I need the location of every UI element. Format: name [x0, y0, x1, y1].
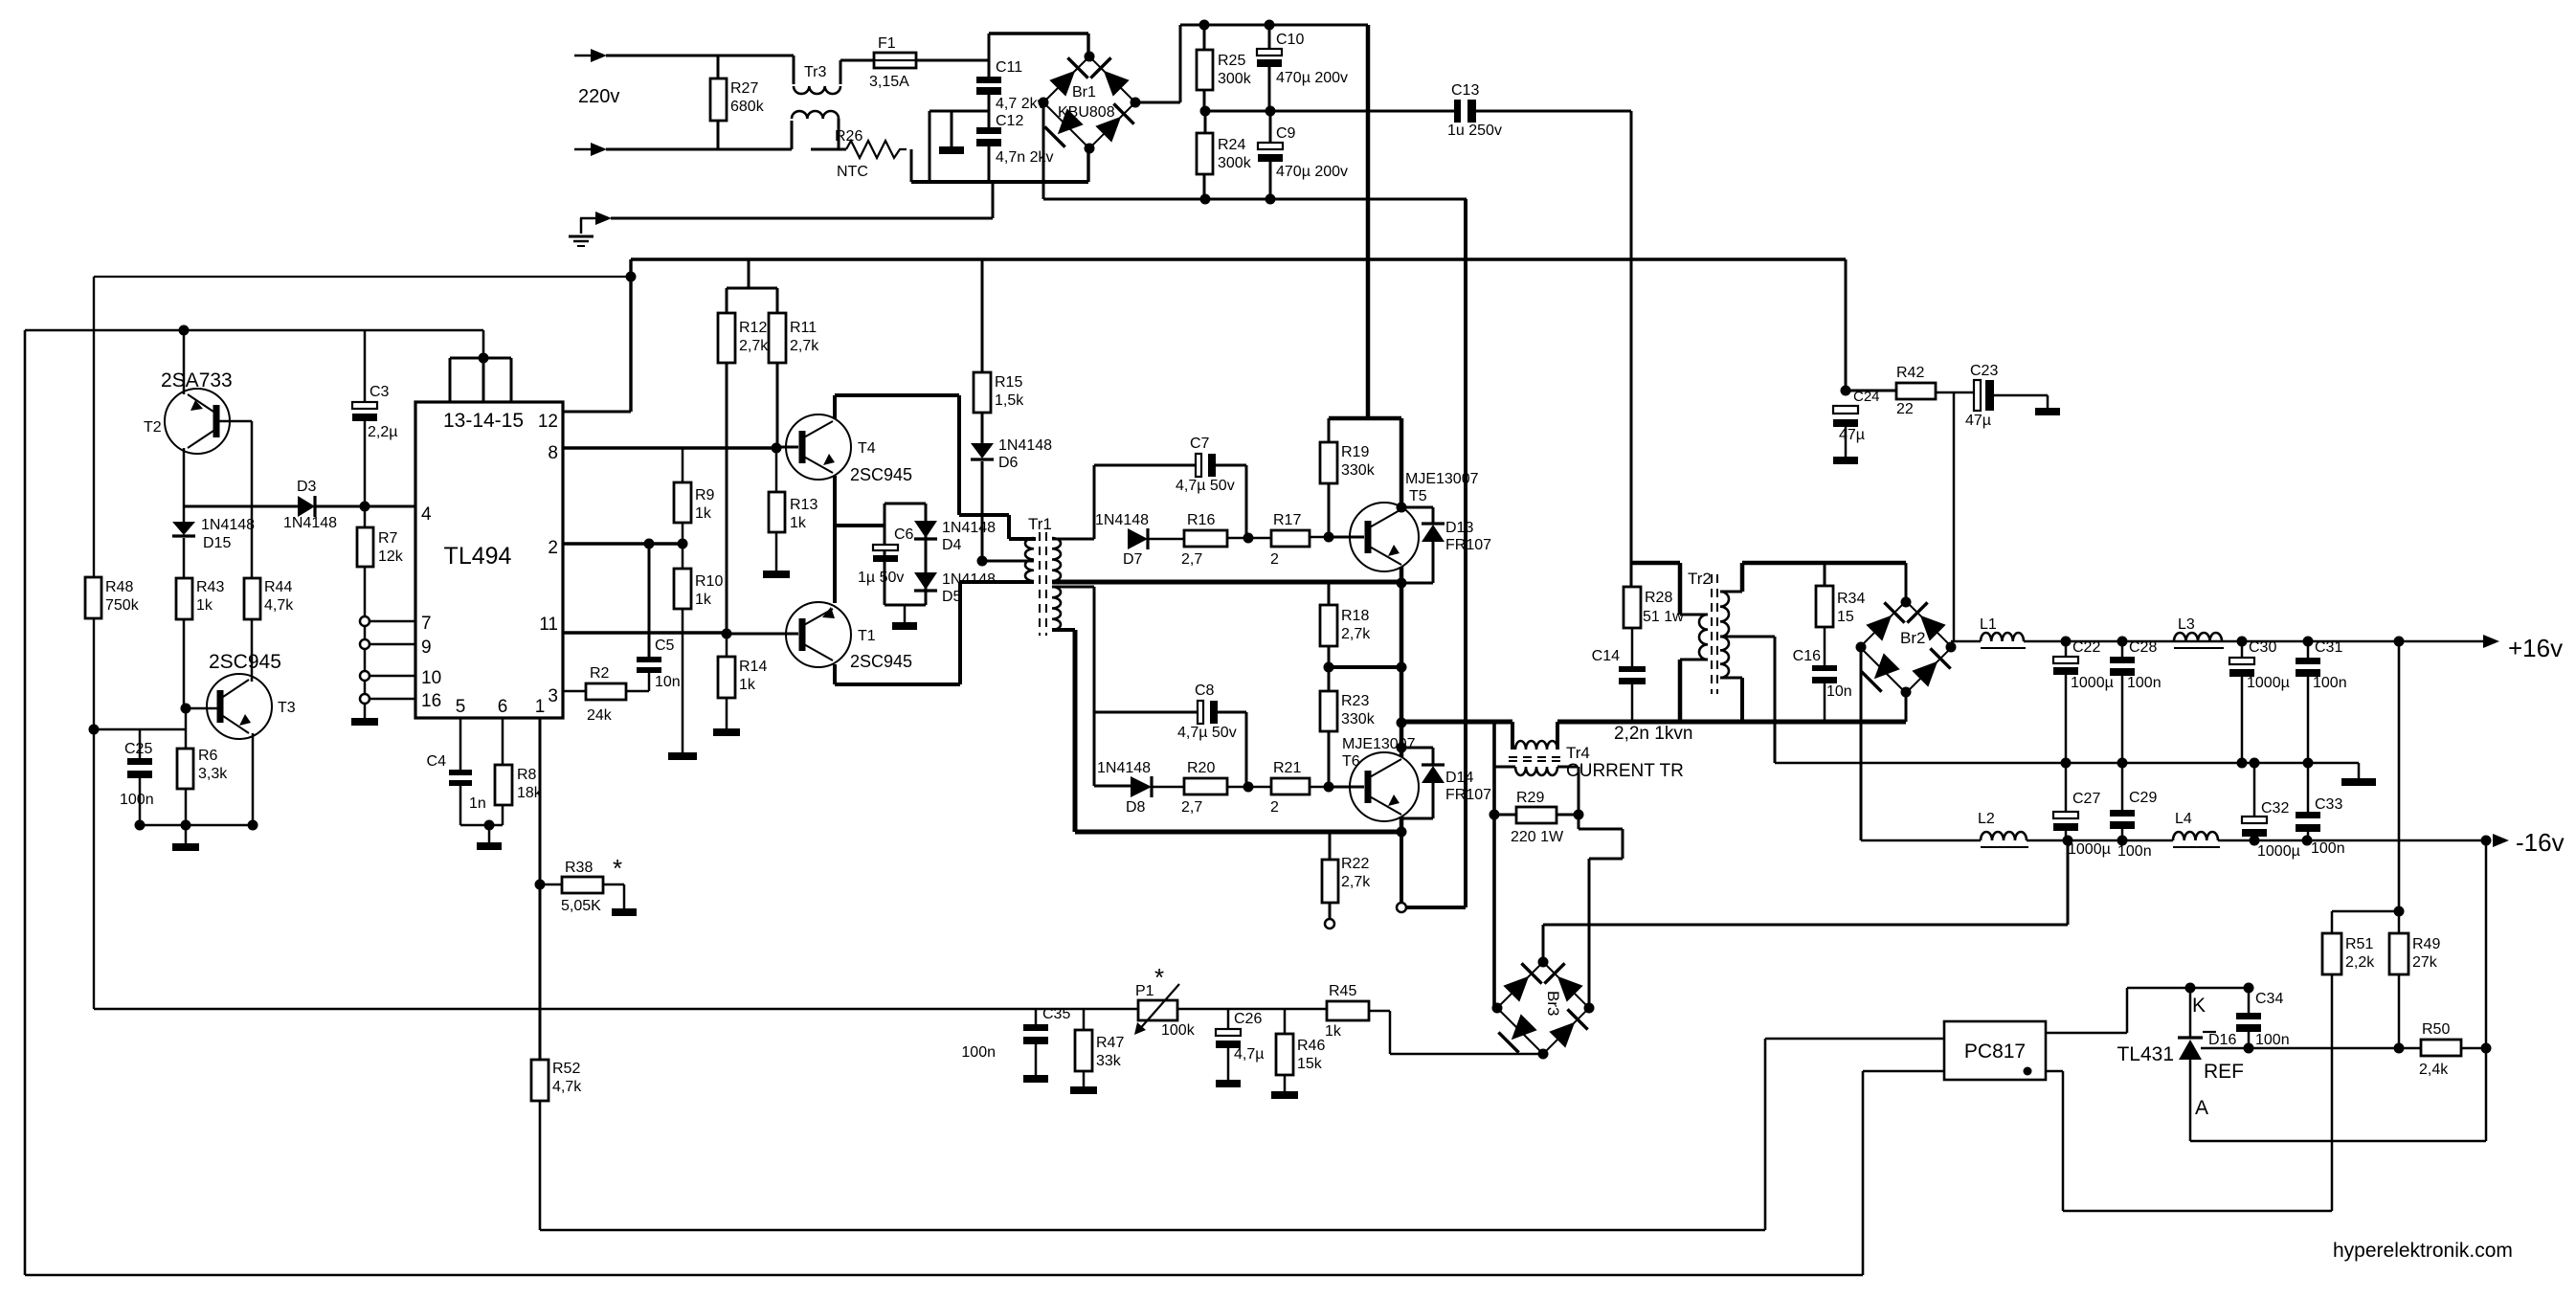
svg-text:C7: C7 — [1190, 436, 1210, 452]
svg-text:T5: T5 — [1409, 488, 1427, 504]
svg-text:22: 22 — [1896, 401, 1914, 417]
svg-text:2SC945: 2SC945 — [850, 465, 912, 484]
svg-text:12: 12 — [538, 412, 558, 432]
svg-text:C14: C14 — [1592, 648, 1620, 664]
svg-text:1000µ: 1000µ — [2071, 675, 2114, 691]
svg-text:1k: 1k — [790, 515, 807, 531]
svg-text:15k: 15k — [1297, 1056, 1323, 1072]
svg-text:R50: R50 — [2422, 1021, 2450, 1038]
svg-text:R28: R28 — [1645, 590, 1672, 606]
svg-text:2,2k: 2,2k — [2345, 954, 2375, 971]
svg-text:C33: C33 — [2315, 796, 2342, 813]
svg-text:C22: C22 — [2072, 639, 2100, 656]
svg-text:C30: C30 — [2249, 639, 2276, 656]
svg-text:R23: R23 — [1341, 693, 1369, 709]
svg-text:1k: 1k — [695, 592, 712, 608]
svg-text:C31: C31 — [2315, 639, 2342, 656]
svg-text:1µ 50v: 1µ 50v — [858, 570, 904, 586]
svg-text:1N4148: 1N4148 — [998, 437, 1052, 454]
svg-text:R6: R6 — [198, 748, 218, 764]
svg-text:16: 16 — [421, 691, 441, 711]
svg-text:R22: R22 — [1341, 856, 1369, 872]
svg-text:Tr4: Tr4 — [1566, 744, 1590, 762]
svg-text:R46: R46 — [1297, 1038, 1325, 1054]
svg-text:T3: T3 — [278, 700, 296, 716]
svg-text:27k: 27k — [2412, 954, 2438, 971]
svg-text:C4: C4 — [427, 753, 447, 770]
svg-text:C9: C9 — [1276, 125, 1296, 142]
svg-text:2,7: 2,7 — [1181, 799, 1202, 816]
svg-text:750k: 750k — [105, 597, 140, 614]
svg-text:C24: C24 — [1853, 389, 1880, 405]
svg-text:2,7k: 2,7k — [790, 338, 819, 354]
svg-text:NTC: NTC — [837, 164, 868, 180]
svg-text:A: A — [2195, 1097, 2208, 1119]
svg-text:R29: R29 — [1516, 790, 1544, 806]
svg-text:2SC945: 2SC945 — [850, 652, 912, 671]
svg-text:PC817: PC817 — [1964, 1041, 2026, 1063]
svg-text:330k: 330k — [1341, 711, 1376, 727]
svg-text:24k: 24k — [587, 707, 613, 724]
svg-text:100n: 100n — [961, 1044, 996, 1061]
svg-text:R26: R26 — [835, 128, 862, 145]
svg-text:2SC945: 2SC945 — [209, 651, 281, 673]
svg-text:1k: 1k — [196, 597, 213, 614]
svg-text:R34: R34 — [1837, 591, 1865, 607]
svg-text:100n: 100n — [120, 792, 154, 808]
svg-text:10: 10 — [421, 668, 441, 688]
svg-text:4,7µ: 4,7µ — [1234, 1046, 1264, 1063]
svg-text:11: 11 — [539, 615, 558, 635]
svg-text:33k: 33k — [1096, 1053, 1122, 1069]
svg-text:10n: 10n — [1826, 683, 1852, 700]
svg-text:C3: C3 — [370, 384, 390, 400]
svg-text:T1: T1 — [858, 628, 876, 644]
svg-text:F1: F1 — [878, 35, 896, 52]
svg-text:C28: C28 — [2129, 639, 2157, 656]
svg-text:Br1: Br1 — [1072, 84, 1096, 101]
svg-text:3,3k: 3,3k — [198, 766, 228, 782]
svg-text:K: K — [2192, 995, 2206, 1017]
svg-text:1N4148: 1N4148 — [942, 520, 996, 536]
svg-text:1k: 1k — [739, 677, 756, 693]
svg-text:*: * — [613, 854, 622, 883]
svg-text:2SA733: 2SA733 — [161, 369, 233, 392]
svg-text:4,7µ 50v: 4,7µ 50v — [1176, 478, 1235, 494]
svg-text:1n: 1n — [469, 795, 486, 812]
svg-text:220 1W: 220 1W — [1511, 829, 1564, 845]
svg-text:3: 3 — [548, 686, 558, 706]
svg-text:R43: R43 — [196, 579, 224, 595]
svg-text:R16: R16 — [1187, 512, 1215, 528]
svg-text:R49: R49 — [2412, 936, 2440, 952]
svg-text:2,7k: 2,7k — [739, 338, 769, 354]
svg-text:L4: L4 — [2175, 811, 2192, 827]
svg-text:13-14-15: 13-14-15 — [443, 410, 524, 432]
svg-text:R17: R17 — [1273, 512, 1301, 528]
svg-text:1,5k: 1,5k — [995, 392, 1024, 409]
svg-text:Tr2: Tr2 — [1688, 570, 1712, 588]
svg-text:TL431: TL431 — [2117, 1043, 2174, 1065]
svg-text:T4: T4 — [858, 440, 876, 457]
svg-text:4: 4 — [421, 504, 432, 525]
svg-text:Br2: Br2 — [1900, 629, 1925, 647]
svg-text:1N4148: 1N4148 — [1097, 760, 1151, 776]
svg-text:R14: R14 — [739, 659, 767, 675]
svg-text:C29: C29 — [2129, 790, 2157, 806]
svg-text:R8: R8 — [517, 767, 537, 783]
svg-text:9: 9 — [421, 638, 432, 658]
svg-text:1N4148: 1N4148 — [201, 517, 255, 533]
svg-text:R25: R25 — [1218, 53, 1245, 69]
svg-text:15: 15 — [1837, 609, 1854, 625]
svg-text:2,7k: 2,7k — [1341, 874, 1371, 890]
svg-text:1000µ: 1000µ — [2247, 675, 2290, 691]
svg-text:D5: D5 — [942, 589, 962, 605]
svg-text:100n: 100n — [2311, 840, 2345, 857]
svg-text:R10: R10 — [695, 573, 723, 590]
svg-text:REF: REF — [2204, 1061, 2244, 1083]
svg-text:D14: D14 — [1445, 770, 1473, 786]
svg-text:T6: T6 — [1342, 753, 1360, 770]
svg-text:470µ 200v: 470µ 200v — [1276, 164, 1348, 180]
svg-text:R2: R2 — [590, 665, 610, 682]
svg-text:1N4148: 1N4148 — [942, 571, 996, 588]
svg-text:C11: C11 — [996, 59, 1022, 76]
svg-text:FR107: FR107 — [1445, 787, 1491, 803]
svg-text:R24: R24 — [1218, 137, 1245, 153]
svg-text:L1: L1 — [1980, 616, 1997, 633]
svg-text:R21: R21 — [1273, 760, 1301, 776]
svg-text:2,4k: 2,4k — [2419, 1062, 2449, 1078]
svg-text:R27: R27 — [730, 80, 758, 97]
svg-text:2,2µ: 2,2µ — [368, 424, 397, 440]
svg-text:100n: 100n — [2255, 1032, 2290, 1048]
svg-text:C13: C13 — [1451, 82, 1479, 99]
svg-text:4,7k: 4,7k — [552, 1079, 582, 1095]
svg-text:R48: R48 — [105, 579, 133, 595]
svg-text:R38: R38 — [565, 860, 593, 876]
svg-text:R12: R12 — [739, 320, 767, 336]
svg-text:6: 6 — [498, 697, 508, 717]
svg-text:TL494: TL494 — [444, 543, 512, 570]
svg-text:C6: C6 — [894, 526, 914, 543]
svg-text:1: 1 — [535, 697, 546, 717]
svg-text:D4: D4 — [942, 537, 962, 553]
svg-text:2: 2 — [548, 538, 558, 558]
svg-text:L2: L2 — [1978, 811, 1995, 827]
svg-text:R19: R19 — [1341, 444, 1369, 460]
svg-text:L3: L3 — [2178, 616, 2195, 633]
svg-text:2,7k: 2,7k — [1341, 626, 1371, 642]
svg-text:300k: 300k — [1218, 71, 1252, 87]
svg-text:C5: C5 — [655, 638, 675, 654]
svg-text:4,7 2kv: 4,7 2kv — [996, 96, 1045, 112]
svg-text:2,2n 1kvn: 2,2n 1kvn — [1614, 724, 1692, 744]
svg-text:R20: R20 — [1187, 760, 1215, 776]
svg-text:100n: 100n — [2313, 675, 2347, 691]
svg-text:100k: 100k — [1161, 1022, 1196, 1039]
svg-text:D8: D8 — [1126, 799, 1146, 816]
svg-text:C26: C26 — [1234, 1011, 1262, 1027]
svg-text:R47: R47 — [1096, 1035, 1124, 1051]
svg-text:D3: D3 — [297, 479, 317, 495]
svg-text:330k: 330k — [1341, 462, 1376, 479]
svg-text:R51: R51 — [2345, 936, 2373, 952]
svg-text:D13: D13 — [1445, 520, 1473, 536]
svg-text:4,7µ 50v: 4,7µ 50v — [1177, 725, 1237, 741]
svg-text:3,15A: 3,15A — [869, 74, 909, 90]
svg-text:220v: 220v — [578, 86, 619, 107]
svg-text:FR107: FR107 — [1445, 537, 1491, 553]
svg-text:KBU808: KBU808 — [1058, 104, 1115, 121]
svg-text:D7: D7 — [1123, 551, 1143, 568]
svg-text:12k: 12k — [378, 548, 404, 565]
svg-text:7: 7 — [421, 614, 432, 634]
svg-text:C35: C35 — [1042, 1006, 1070, 1022]
svg-text:2: 2 — [1270, 799, 1279, 816]
svg-text:C8: C8 — [1195, 683, 1215, 699]
svg-text:5,05K: 5,05K — [561, 898, 601, 914]
svg-text:100n: 100n — [2127, 675, 2162, 691]
svg-text:680k: 680k — [730, 99, 765, 115]
svg-text:CURRENT TR: CURRENT TR — [1566, 761, 1684, 781]
svg-text:R45: R45 — [1329, 983, 1356, 999]
svg-text:Tr3: Tr3 — [804, 64, 827, 80]
svg-text:Tr1: Tr1 — [1028, 515, 1052, 533]
svg-text:1N4148: 1N4148 — [1095, 512, 1149, 528]
svg-text:4,7k: 4,7k — [264, 597, 294, 614]
svg-text:C27: C27 — [2072, 791, 2100, 807]
svg-text:R15: R15 — [995, 374, 1022, 391]
svg-text:8: 8 — [548, 443, 558, 463]
svg-text:P1: P1 — [1135, 983, 1154, 999]
svg-text:D6: D6 — [998, 455, 1019, 471]
svg-text:T2: T2 — [144, 419, 162, 436]
svg-text:R7: R7 — [378, 530, 398, 547]
svg-text:2: 2 — [1270, 551, 1279, 568]
svg-text:C32: C32 — [2261, 800, 2289, 817]
svg-text:C10: C10 — [1276, 32, 1304, 48]
svg-text:100n: 100n — [2117, 843, 2152, 860]
svg-text:1k: 1k — [1325, 1023, 1342, 1040]
svg-text:R44: R44 — [264, 579, 292, 595]
svg-text:2,7: 2,7 — [1181, 551, 1202, 568]
svg-text:C12: C12 — [996, 113, 1023, 129]
svg-text:1000µ: 1000µ — [2257, 843, 2300, 860]
svg-text:hyperelektronik.com: hyperelektronik.com — [2333, 1240, 2513, 1262]
svg-text:C34: C34 — [2255, 991, 2283, 1007]
svg-text:1000µ: 1000µ — [2068, 841, 2111, 858]
svg-text:47µ: 47µ — [1839, 427, 1865, 443]
svg-text:*: * — [1154, 963, 1164, 992]
svg-text:MJE13007: MJE13007 — [1405, 471, 1479, 487]
svg-text:D16: D16 — [2208, 1032, 2236, 1048]
svg-text:300k: 300k — [1218, 155, 1252, 171]
svg-text:1u 250v: 1u 250v — [1447, 123, 1502, 139]
svg-text:C16: C16 — [1793, 648, 1821, 664]
svg-text:D15: D15 — [203, 535, 231, 551]
svg-text:C23: C23 — [1970, 363, 1998, 379]
svg-text:-16v: -16v — [2516, 828, 2565, 857]
svg-text:R9: R9 — [695, 487, 715, 504]
svg-text:470µ 200v: 470µ 200v — [1276, 70, 1348, 86]
svg-text:R11: R11 — [790, 320, 817, 336]
svg-text:1k: 1k — [695, 505, 712, 522]
svg-text:+16v: +16v — [2508, 634, 2563, 662]
svg-text:R13: R13 — [790, 497, 818, 513]
svg-text:10n: 10n — [655, 674, 681, 690]
svg-text:C25: C25 — [124, 741, 152, 757]
svg-text:Br3: Br3 — [1544, 991, 1562, 1016]
svg-text:47µ: 47µ — [1965, 413, 1991, 429]
svg-text:R42: R42 — [1896, 365, 1924, 381]
svg-text:5: 5 — [456, 697, 466, 717]
svg-text:1N4148: 1N4148 — [283, 515, 337, 531]
svg-text:18k: 18k — [517, 785, 543, 801]
svg-text:R18: R18 — [1341, 608, 1369, 624]
svg-text:51 1w: 51 1w — [1643, 609, 1684, 625]
svg-text:R52: R52 — [552, 1061, 580, 1077]
